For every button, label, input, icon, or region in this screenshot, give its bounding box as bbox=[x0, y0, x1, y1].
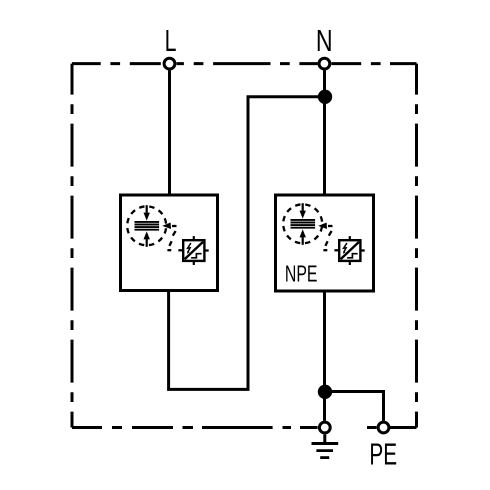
svg-text:PE: PE bbox=[369, 436, 397, 471]
svg-text:NPE: NPE bbox=[285, 262, 318, 288]
svg-text:L: L bbox=[165, 23, 177, 58]
svg-text:N: N bbox=[316, 23, 333, 58]
